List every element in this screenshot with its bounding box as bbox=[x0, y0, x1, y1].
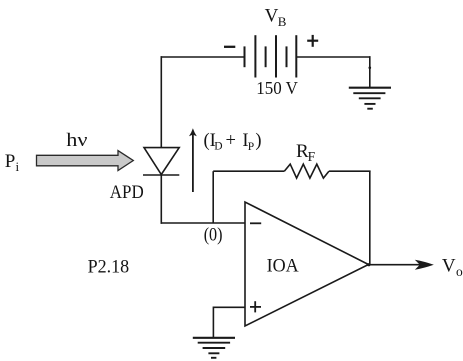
svg-text:P2.18: P2.18 bbox=[88, 257, 130, 277]
stray junction dot on wire bbox=[369, 66, 372, 69]
wire: battery negative lead (horizontal top-left) bbox=[161, 56, 246, 58]
svg-text:150 V: 150 V bbox=[256, 78, 298, 98]
wire: feedback branch vertical bbox=[212, 171, 214, 223]
block arrow: incident light bbox=[37, 151, 134, 171]
svg-text:): ) bbox=[255, 131, 261, 151]
svg-text:o: o bbox=[456, 264, 463, 279]
op-amp U1 (IOA) triangle bbox=[245, 202, 369, 326]
battery plus sign bbox=[307, 35, 318, 47]
wire: APD cathode down to summing node bbox=[160, 175, 162, 224]
svg-text:(0): (0) bbox=[204, 224, 223, 245]
svg-text:P: P bbox=[248, 141, 254, 153]
op-amp inverting (minus) sign bbox=[250, 222, 261, 224]
wire: battery positive lead to ground bbox=[296, 56, 370, 58]
current arrow (I_D + I_P) bbox=[189, 128, 197, 192]
wire: feedback vertical down to output node bbox=[369, 171, 371, 265]
battery V_B (3 cells) bbox=[245, 35, 297, 77]
svg-text:V: V bbox=[442, 255, 456, 276]
wire: vertical down to bottom ground bbox=[212, 307, 214, 338]
output node junction dot bbox=[367, 263, 370, 266]
wire: resistor to right corner bbox=[329, 170, 371, 172]
label (I_D + I_P) bbox=[204, 131, 262, 153]
svg-text:+: + bbox=[226, 131, 236, 151]
svg-text:V: V bbox=[265, 5, 279, 26]
svg-text:i: i bbox=[16, 159, 20, 174]
wire: non-inverting input horizontal bbox=[213, 306, 245, 308]
photodiode APD (triangle + cathode bar) bbox=[143, 148, 179, 175]
wire: feedback horizontal to resistor bbox=[213, 170, 284, 172]
wire: vertical down to top-right ground bbox=[369, 56, 371, 87]
wire: summing node to inverting input bbox=[161, 222, 246, 224]
wire: output with arrowhead bbox=[369, 260, 434, 270]
battery minus sign bbox=[224, 46, 235, 48]
resistor R_F bbox=[284, 164, 329, 178]
svg-text:B: B bbox=[278, 14, 287, 29]
wire: vertical from battery lead down to APD anode bbox=[160, 56, 162, 147]
svg-text:F: F bbox=[308, 149, 316, 164]
ground (bottom, non-inverting input) bbox=[193, 338, 235, 358]
op-amp non-inverting (plus) sign bbox=[250, 301, 261, 312]
ground (top right, near battery) bbox=[349, 88, 391, 109]
svg-text:P: P bbox=[5, 151, 16, 172]
svg-text:hν: hν bbox=[66, 130, 88, 151]
svg-text:APD: APD bbox=[110, 183, 144, 203]
svg-text:D: D bbox=[214, 141, 222, 153]
svg-text:IOA: IOA bbox=[267, 256, 299, 277]
